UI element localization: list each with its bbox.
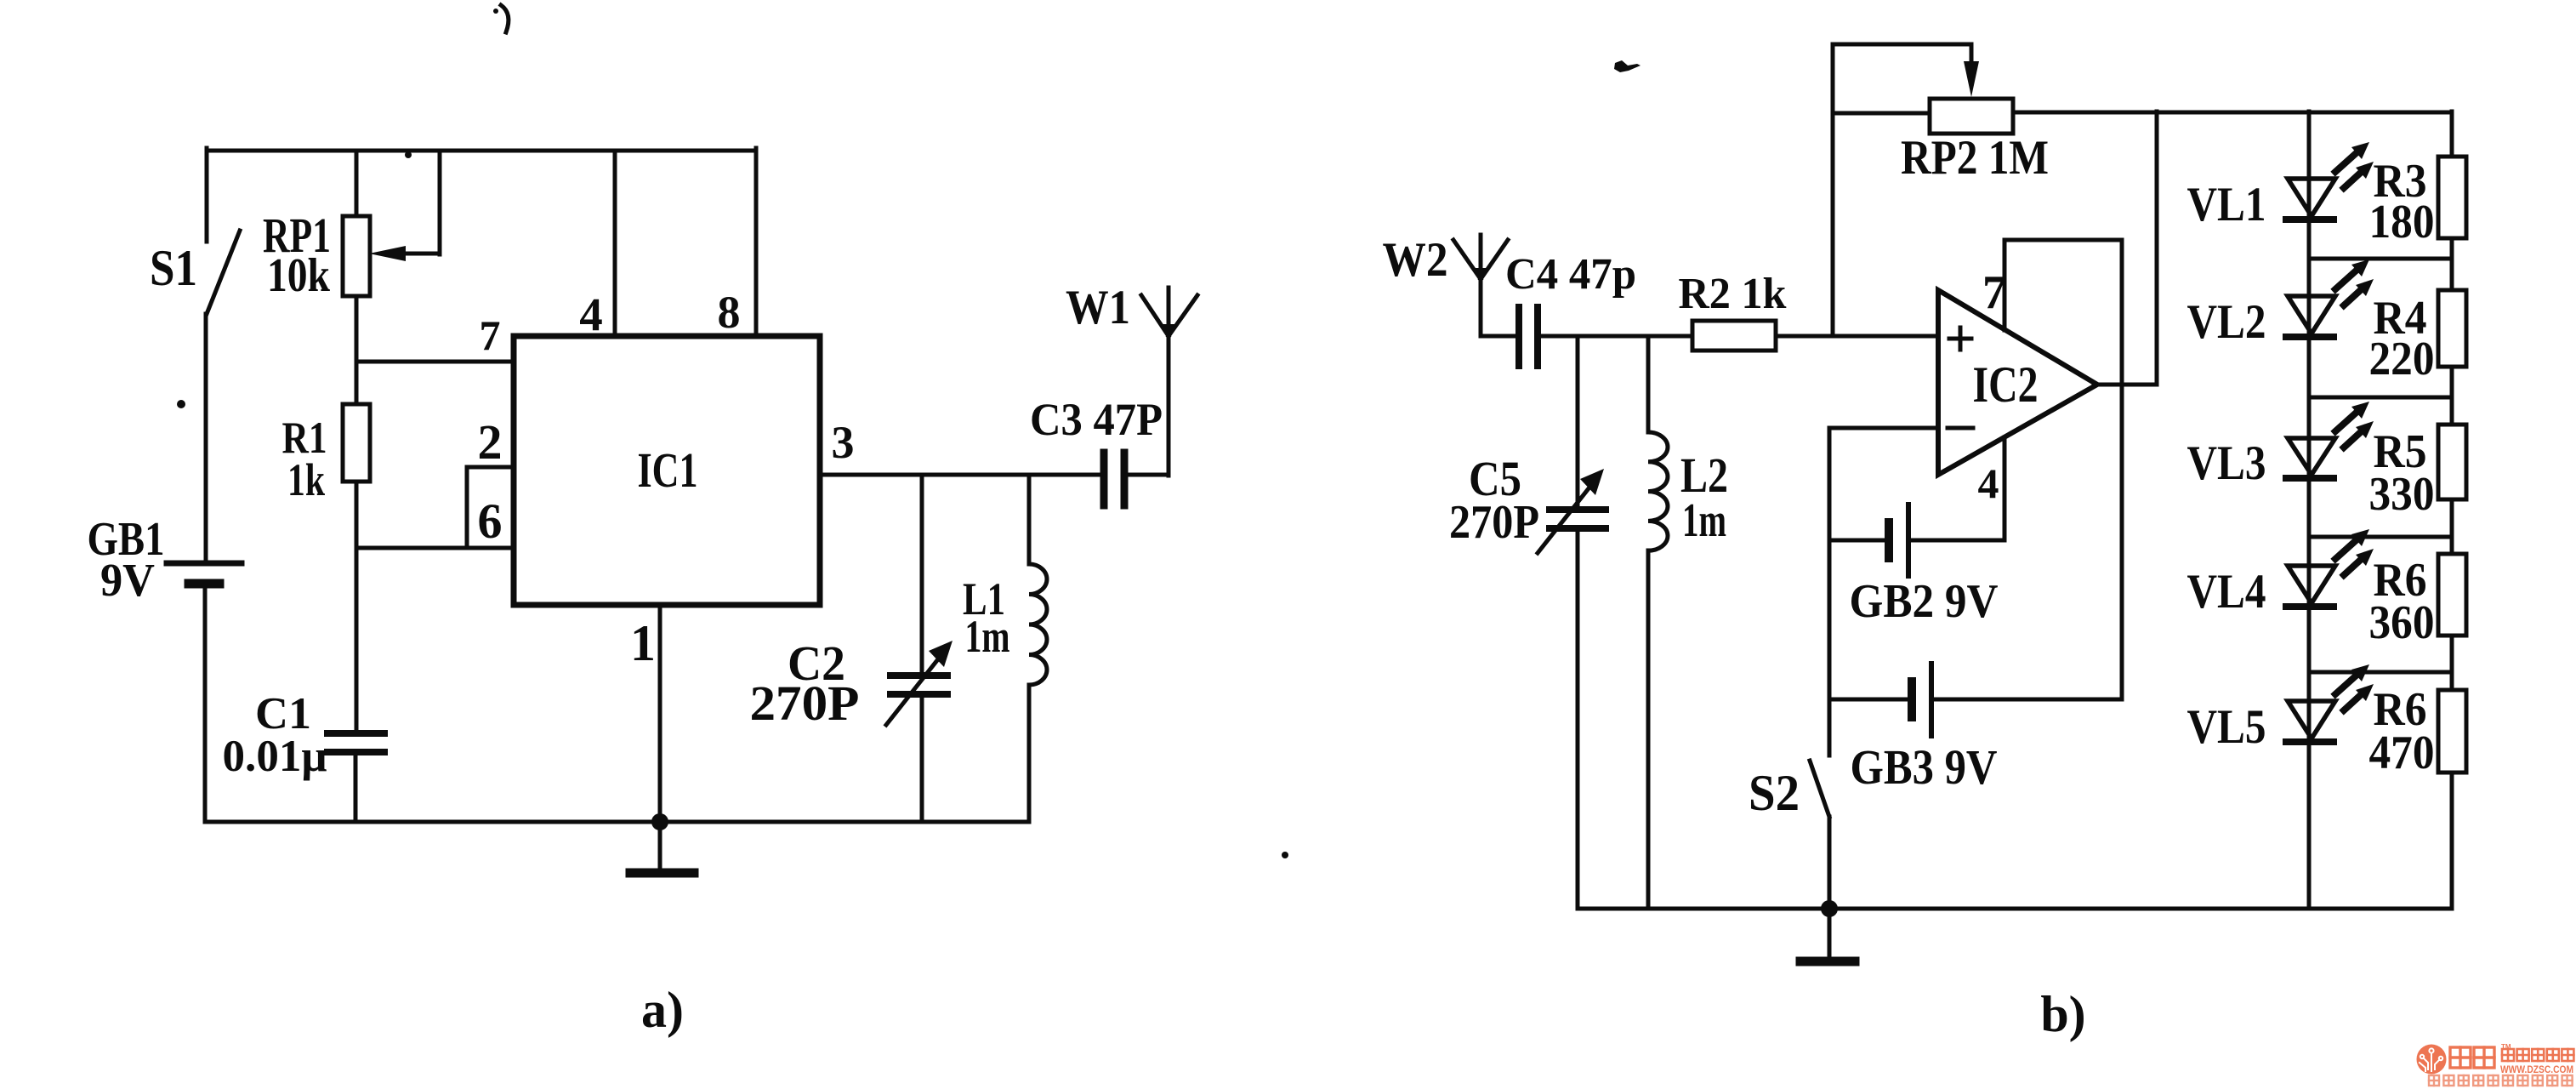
LED VL2 emission arrow 2 xyxy=(2344,287,2364,305)
ground stem circuit b xyxy=(1828,909,1832,958)
capacitor C1 top plate xyxy=(327,730,384,737)
wire RP2 left vertical xyxy=(1831,44,1835,336)
svg-text:0.01μ: 0.01μ xyxy=(223,732,327,781)
inductor L1 coil xyxy=(1029,564,1047,685)
svg-text:270P: 270P xyxy=(750,676,860,731)
LED VL3 emission arrow 2 xyxy=(2344,429,2364,448)
wire output to top rail vertical xyxy=(2155,111,2159,385)
wire pin 2 stub xyxy=(467,465,515,470)
capacitor C5 trimmer arrow xyxy=(1538,484,1592,553)
svg-text:GB3 9V: GB3 9V xyxy=(1851,739,1998,795)
wire L2 upper xyxy=(1646,336,1651,432)
wire pin 1 vertical xyxy=(658,608,662,822)
potentiometer RP1 wiper arrowhead xyxy=(369,246,406,261)
ground bar circuit b xyxy=(1800,957,1855,966)
LED VL3 cathode bar xyxy=(2286,475,2334,482)
wire resistor rail segment 2 xyxy=(2450,238,2454,259)
resistor R4 (220) body xyxy=(2438,290,2466,367)
wire LED anode rail xyxy=(2307,111,2312,909)
wire IC2 inverting input xyxy=(1829,426,1938,430)
capacitor C2 trimmer arrowhead xyxy=(929,641,952,667)
wire pin 6 xyxy=(356,546,515,550)
LED VL2 triangle xyxy=(2288,296,2335,334)
wire GB3 left lead xyxy=(1829,698,1912,702)
wire bottom rail of circuit a xyxy=(205,820,1029,824)
wire GB1 to bottom rail xyxy=(203,584,208,822)
wire IC2 output xyxy=(2094,383,2157,387)
capacitor C4 left plate xyxy=(1515,307,1522,366)
wire ladder rung 2 xyxy=(2309,396,2452,400)
wire GB2 to pin 4 xyxy=(1908,539,2005,543)
capacitor C1 bottom plate xyxy=(327,749,384,755)
svg-text:S2: S2 xyxy=(1749,765,1800,821)
LED VL1 cathode bar xyxy=(2286,216,2334,223)
wire L1 upper xyxy=(1027,475,1032,564)
svg-text:7: 7 xyxy=(1982,266,2006,319)
svg-text:C4 47p: C4 47p xyxy=(1505,250,1636,299)
wire RP2 top loop xyxy=(1833,43,1971,47)
wire RP2 left lead xyxy=(1833,111,1930,116)
capacitor C5 top plate xyxy=(1550,506,1606,513)
svg-text:6: 6 xyxy=(478,493,503,549)
wire S1 to GB1 xyxy=(204,314,208,563)
wire resistor rail segment 9 xyxy=(2450,672,2454,690)
scan speck dot left xyxy=(177,400,185,408)
wire S2 to bottom rail xyxy=(1828,817,1832,909)
wire L1 lower xyxy=(1027,685,1032,822)
potentiometer RP1 body xyxy=(343,216,370,296)
wire resistor rail segment top xyxy=(2450,111,2454,157)
resistor R2 body xyxy=(1692,321,1776,351)
scan speck dot a-top xyxy=(405,151,412,158)
svg-text:1m: 1m xyxy=(965,611,1010,662)
wire RP1 to pin7 junction xyxy=(355,296,359,404)
capacitor C5 bottom plate xyxy=(1550,525,1606,532)
battery GB1 negative plate xyxy=(189,579,219,589)
wire ladder rung 4 xyxy=(2309,670,2452,675)
wire pin 4 vertical of IC2 xyxy=(2003,437,2007,540)
antenna W2 xyxy=(1453,235,1508,284)
resistor R1 body xyxy=(343,404,370,482)
svg-text:VL2: VL2 xyxy=(2187,295,2266,349)
svg-text:330: 330 xyxy=(2369,468,2435,521)
svg-text:S1: S1 xyxy=(150,240,197,296)
wire top rail of circuit a xyxy=(208,149,756,153)
wire pin 7 top loop xyxy=(2005,238,2122,242)
wire pin 7 xyxy=(356,360,515,364)
LED VL5 triangle xyxy=(2288,701,2335,738)
LED VL5 cathode bar xyxy=(2286,738,2334,745)
LED VL2 emission arrow 1 xyxy=(2335,267,2360,289)
switch S1 blade xyxy=(207,231,240,314)
inductor L2 coil xyxy=(1648,432,1668,550)
capacitor C2 bottom plate xyxy=(890,691,947,698)
wire resistor rail segment 7 xyxy=(2450,537,2454,554)
wire resistor rail segment 5 xyxy=(2450,397,2454,425)
wire inverting-input vertical (to GB2/GB3/S2) xyxy=(1828,428,1832,755)
battery GB2 positive plate xyxy=(1906,505,1911,576)
battery GB3 positive plate xyxy=(1929,664,1934,736)
ground bar circuit a xyxy=(630,869,694,878)
wire R1 bottom to C1 xyxy=(355,482,359,733)
LED VL3 emission arrow 1 xyxy=(2335,409,2360,431)
node junction pin1/ground xyxy=(651,813,668,830)
wire W2 stem to C4 xyxy=(1479,277,1483,336)
battery GB3 negative plate xyxy=(1908,681,1916,717)
watermark logo circle xyxy=(2417,1045,2447,1075)
svg-text:VL5: VL5 xyxy=(2187,700,2266,754)
wire pin 4 vertical xyxy=(613,151,617,334)
wire pin7/output/GB3 vertical xyxy=(2120,240,2124,699)
svg-text:7: 7 xyxy=(480,311,501,359)
svg-text:C3 47P: C3 47P xyxy=(1030,394,1163,445)
svg-text:10k: 10k xyxy=(267,249,331,302)
svg-text:RP2 1M: RP2 1M xyxy=(1901,131,2049,185)
svg-text:270P: 270P xyxy=(1449,496,1539,549)
wire pin 3 xyxy=(822,473,1100,477)
wire L2 lower xyxy=(1646,550,1651,909)
wire RP2 wiper arrow stem xyxy=(1970,44,1974,68)
IC2 minus input marker xyxy=(1948,426,1973,430)
LED VL4 emission arrow 1 xyxy=(2335,537,2360,559)
resistor R3 (180) body xyxy=(2438,157,2466,238)
wire C1 to bottom rail xyxy=(354,752,358,822)
capacitor C4 right plate xyxy=(1534,307,1541,366)
watermark text 维库 (blocks) xyxy=(2450,1047,2471,1068)
svg-text:220: 220 xyxy=(2369,333,2435,385)
resistor R5 (330) body xyxy=(2438,425,2466,499)
LED VL1 triangle xyxy=(2288,179,2335,216)
resistor R6 (360) body xyxy=(2438,554,2466,636)
svg-text:VL1: VL1 xyxy=(2187,178,2266,231)
wire RP1 top feed xyxy=(355,151,359,216)
LED VL5 emission arrow 1 xyxy=(2335,672,2360,694)
capacitor C3 left plate xyxy=(1100,453,1108,505)
capacitor C3 right plate xyxy=(1121,453,1129,505)
op-amp timer IC1 box xyxy=(514,336,820,605)
antenna W1 xyxy=(1141,295,1197,341)
svg-text:8: 8 xyxy=(718,287,741,338)
IC2 plus input marker xyxy=(1949,337,1971,341)
svg-text:9V: 9V xyxy=(100,554,155,606)
op-amp IC2 triangle xyxy=(1938,290,2097,475)
LED VL5 emission arrow 2 xyxy=(2344,692,2364,710)
wire C5 lower xyxy=(1576,528,1580,909)
potentiometer RP1 wiper drop wire xyxy=(438,151,442,254)
ground stem circuit a xyxy=(658,822,662,870)
svg-text:R2 1k: R2 1k xyxy=(1679,270,1787,318)
svg-text:180: 180 xyxy=(2369,196,2435,248)
wire top rail of circuit b (RP2 to LED ladder) xyxy=(2013,111,2452,115)
watermark slogan 专业电子元器件交易网站 (blocks) xyxy=(2429,1075,2439,1086)
svg-text:1m: 1m xyxy=(1682,494,1726,547)
wire resistor rail segment 3 xyxy=(2450,259,2454,290)
switch S2 blade xyxy=(1810,761,1829,817)
LED VL3 triangle xyxy=(2288,438,2335,475)
wire resistor rail segment 6 xyxy=(2450,499,2454,537)
svg-text:VL4: VL4 xyxy=(2187,565,2266,619)
svg-text:4: 4 xyxy=(579,288,603,340)
svg-text:470: 470 xyxy=(2369,727,2435,779)
resistor R6 (470) body xyxy=(2438,690,2466,773)
battery GB2 negative plate xyxy=(1885,522,1893,558)
wire bottom rail of circuit b xyxy=(1578,907,2452,911)
wire pin 8 vertical xyxy=(754,148,759,334)
LED VL1 emission arrow 2 xyxy=(2344,169,2364,188)
potentiometer RP1 wiper arm xyxy=(398,252,439,256)
scan speck dash xyxy=(1614,60,1641,72)
wire C2 upper xyxy=(920,475,924,676)
wire ladder rung 3 xyxy=(2309,535,2452,539)
capacitor C5 trimmer arrowhead xyxy=(1580,469,1604,495)
svg-text:W2: W2 xyxy=(1383,233,1448,287)
wire C4 to R2 (tank node) xyxy=(1538,334,1692,339)
potentiometer RP2 body xyxy=(1930,99,2013,134)
wire C2 lower xyxy=(920,694,924,822)
scan speck curl top xyxy=(501,5,509,32)
svg-text:1k: 1k xyxy=(287,454,325,505)
wire resistor rail segment 10 xyxy=(2450,773,2454,909)
battery GB1 positive plate xyxy=(167,561,242,567)
svg-text:IC1: IC1 xyxy=(638,442,698,498)
wire resistor rail segment 4 xyxy=(2450,367,2454,397)
svg-text:GB2 9V: GB2 9V xyxy=(1850,575,1999,628)
wire GB3 to output vertical xyxy=(1931,698,2122,702)
capacitor C2 top plate xyxy=(890,672,947,679)
wire resistor rail segment 8 xyxy=(2450,636,2454,672)
svg-text:2: 2 xyxy=(478,414,503,470)
watermark text 电子市场网 (blocks) xyxy=(2502,1049,2514,1061)
wire W1 stem xyxy=(1167,288,1171,476)
wire C3 to W1 xyxy=(1128,473,1168,477)
svg-text:b): b) xyxy=(2040,986,2085,1042)
wire pin 7 vertical xyxy=(2003,240,2007,330)
svg-text:360: 360 xyxy=(2369,596,2435,649)
capacitor C2 trimmer arrow xyxy=(886,656,941,725)
svg-text:IC2: IC2 xyxy=(1973,356,2039,413)
wire C5 upper xyxy=(1576,336,1580,510)
wire left rail upper (S1 fixed contact) xyxy=(205,148,209,242)
wire GB2 left lead xyxy=(1829,539,1889,543)
scan speck dot middle xyxy=(1282,852,1288,858)
LED VL4 emission arrow 2 xyxy=(2344,556,2364,575)
LED VL4 cathode bar xyxy=(2286,603,2334,610)
svg-text:VL3: VL3 xyxy=(2187,436,2266,490)
potentiometer RP2 wiper arrowhead xyxy=(1964,61,1979,97)
svg-text:1: 1 xyxy=(630,615,656,671)
wire pin2-pin6 vertical stub xyxy=(465,467,469,548)
svg-text:W1: W1 xyxy=(1066,281,1130,334)
LED VL2 cathode bar xyxy=(2286,334,2334,340)
svg-text:WWW.DZSC.COM: WWW.DZSC.COM xyxy=(2500,1063,2573,1075)
LED VL1 emission arrow 1 xyxy=(2335,150,2360,172)
node junction S2/ground xyxy=(1821,900,1838,917)
LED VL4 triangle xyxy=(2288,566,2335,603)
wire R2 to IC2 noninverting input xyxy=(1776,334,1938,339)
svg-text:4: 4 xyxy=(1978,459,1999,507)
wire ladder rung 1 xyxy=(2309,257,2452,261)
svg-text:3: 3 xyxy=(832,417,855,468)
svg-text:a): a) xyxy=(641,982,684,1038)
